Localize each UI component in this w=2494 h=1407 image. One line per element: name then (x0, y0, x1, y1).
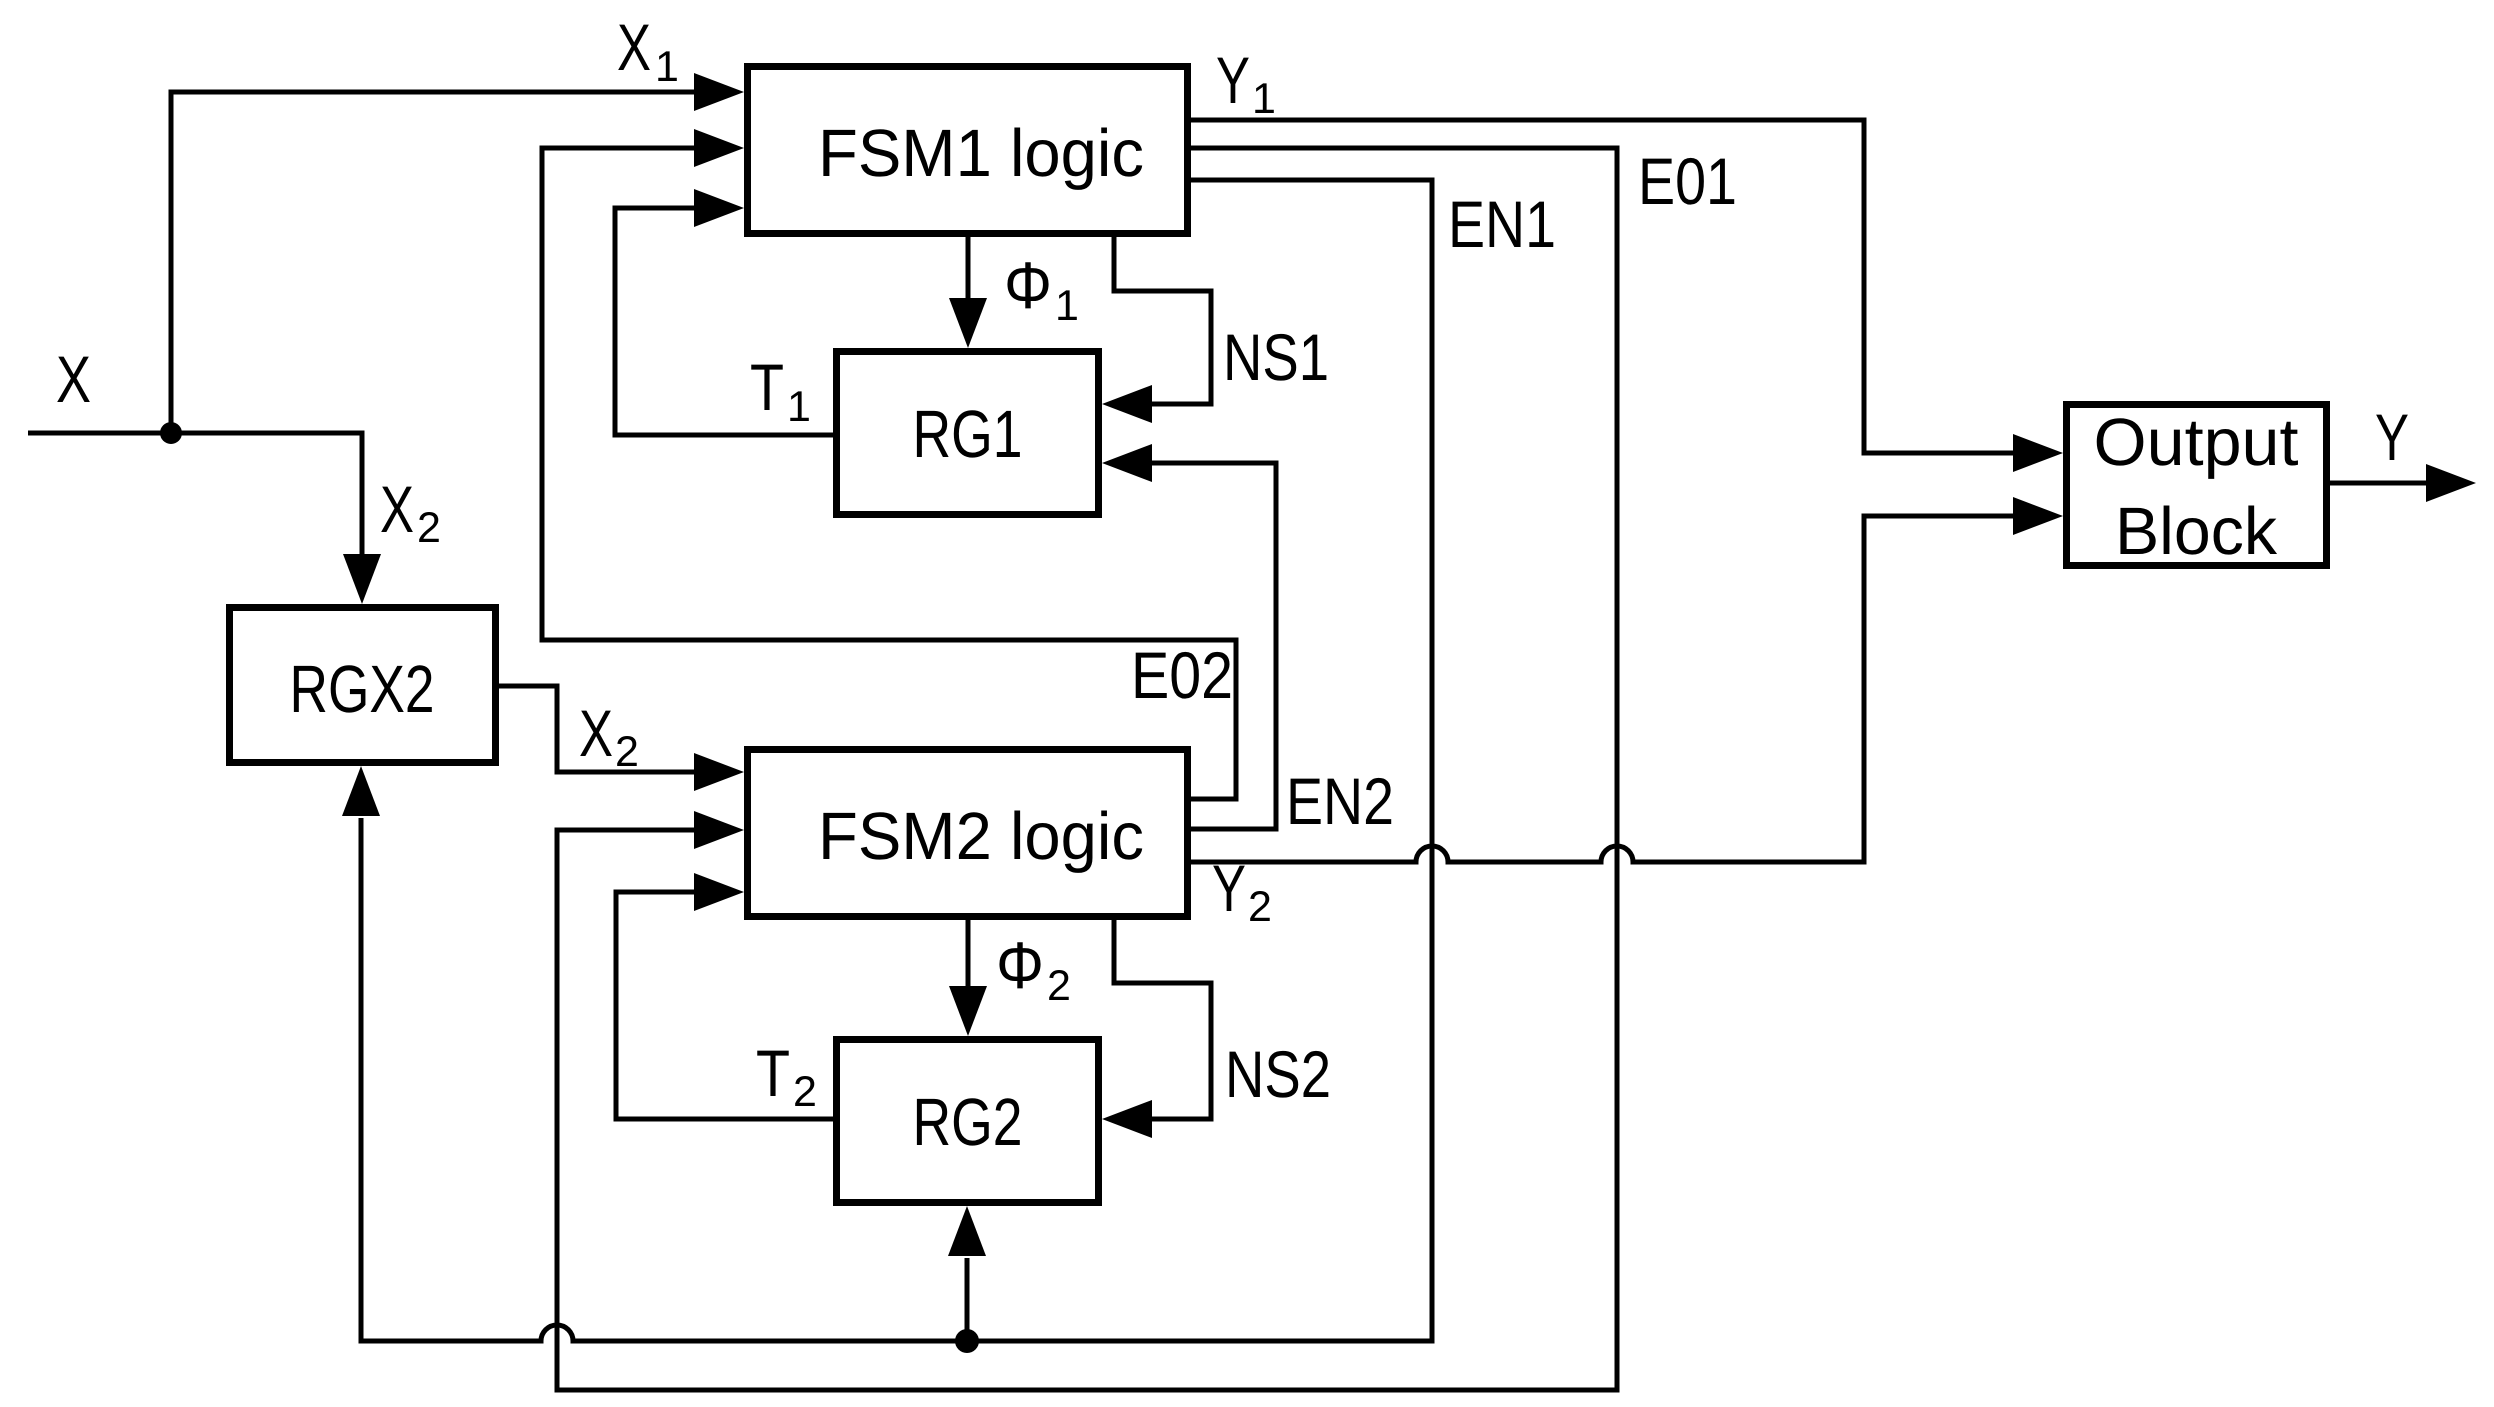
svg-text:2: 2 (793, 1068, 817, 1116)
svg-text:X: X (56, 342, 91, 416)
svg-text:EN2: EN2 (1286, 764, 1394, 838)
svg-text:2: 2 (1047, 962, 1071, 1010)
svg-text:FSM1 logic: FSM1 logic (818, 116, 1144, 191)
svg-text:1: 1 (1252, 75, 1276, 123)
svg-text:NS2: NS2 (1225, 1037, 1331, 1111)
svg-text:2: 2 (615, 728, 639, 776)
svg-text:FSM2 logic: FSM2 logic (818, 799, 1144, 874)
svg-text:RG2: RG2 (913, 1085, 1023, 1160)
svg-text:RGX2: RGX2 (290, 652, 435, 727)
svg-text:Φ: Φ (996, 928, 1044, 1002)
svg-text:1: 1 (655, 43, 679, 91)
svg-text:T: T (750, 350, 784, 424)
svg-text:X: X (617, 10, 651, 84)
svg-text:2: 2 (417, 504, 441, 552)
svg-text:Y: Y (2375, 400, 2409, 474)
svg-text:1: 1 (1055, 282, 1079, 330)
svg-text:E02: E02 (1131, 638, 1233, 712)
svg-text:1: 1 (787, 383, 811, 431)
svg-text:Block: Block (2115, 494, 2277, 569)
svg-text:Φ: Φ (1004, 248, 1052, 322)
svg-text:NS1: NS1 (1223, 320, 1329, 394)
svg-text:E01: E01 (1638, 144, 1737, 218)
svg-text:T: T (756, 1036, 790, 1110)
svg-text:RG1: RG1 (913, 397, 1023, 472)
svg-text:Y: Y (1216, 43, 1250, 117)
svg-text:2: 2 (1248, 883, 1272, 931)
svg-text:Output: Output (2094, 405, 2299, 480)
svg-text:X: X (380, 472, 414, 546)
svg-text:Y: Y (1212, 851, 1246, 925)
svg-text:EN1: EN1 (1448, 187, 1556, 261)
svg-text:X: X (579, 696, 613, 770)
